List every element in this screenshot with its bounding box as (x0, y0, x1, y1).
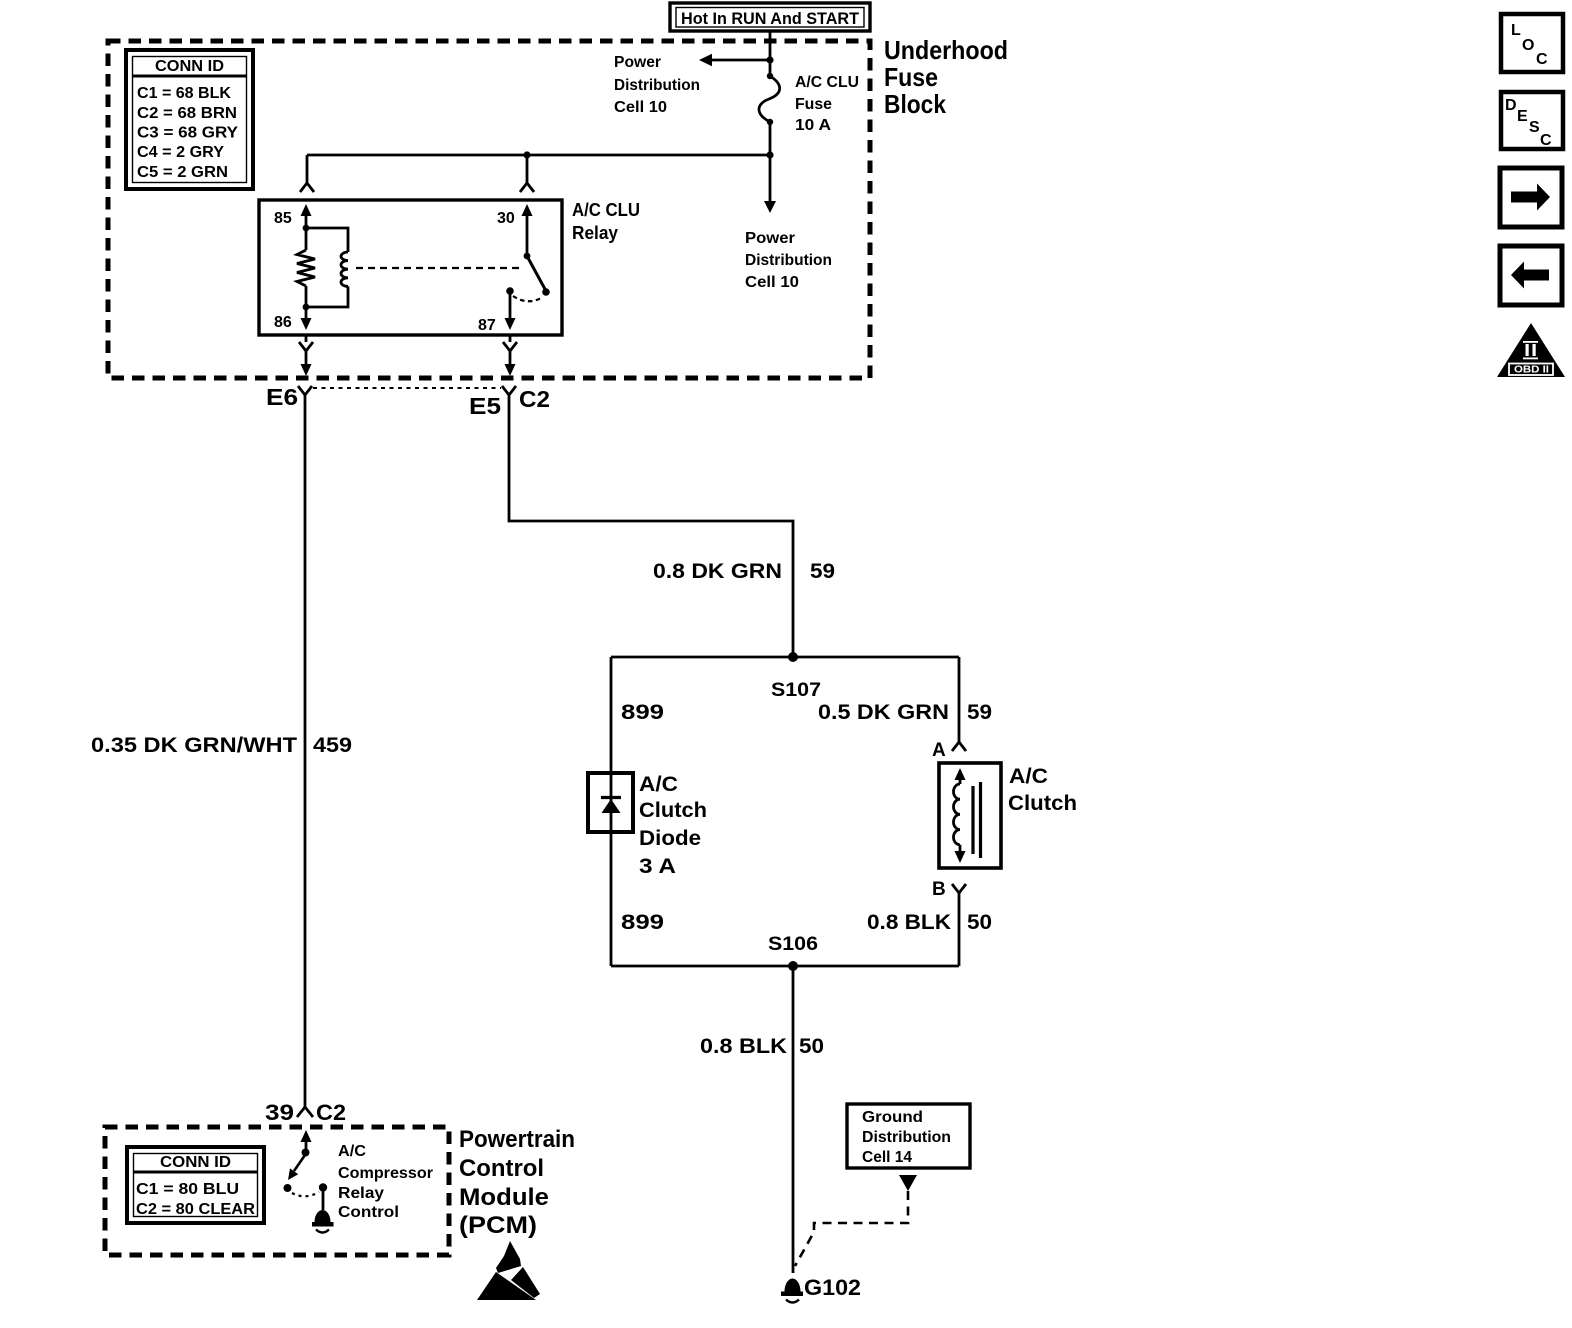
svg-text:C: C (1536, 51, 1548, 68)
svg-text:0.5 DK GRN: 0.5 DK GRN (818, 701, 949, 724)
PCM dashed boundary (105, 1127, 449, 1255)
svg-text:(PCM): (PCM) (459, 1212, 537, 1239)
svg-text:A/C: A/C (639, 773, 678, 796)
label: Powertrain Control Module (PCM) (459, 1126, 575, 1239)
pin 87 arrow (505, 287, 516, 330)
Ground Distribution Cell 14 box (847, 1104, 970, 1168)
relay pin 86 exit terminal and arrow into connector (299, 335, 313, 376)
svg-text:S106: S106 (768, 934, 818, 955)
svg-text:Fuse: Fuse (795, 96, 832, 113)
svg-text:85: 85 (274, 210, 292, 227)
wire from Hot box down through fuse (769, 31, 772, 155)
arrow under Ground Distribution box (899, 1175, 917, 1191)
svg-text:Block: Block (884, 89, 946, 119)
svg-text:E: E (1517, 108, 1528, 125)
dashed wire from Ground Distribution to G102 (795, 1191, 908, 1266)
svg-text:86: 86 (274, 314, 292, 331)
relay pin 87 exit terminal and arrow into connector (503, 335, 517, 376)
node: Hot In RUN And START box (670, 3, 870, 31)
label: 0.8 BLK 50 (clutch to S106) (867, 911, 992, 934)
svg-text:39: 39 (265, 1100, 294, 1125)
label: 0.5 DK GRN 59 (818, 701, 992, 724)
svg-text:C2 = 68 BRN: C2 = 68 BRN (137, 105, 237, 122)
wire: 0.35 DK GRN/WHT 459 from E6 to PCM (304, 395, 307, 1107)
svg-text:E6: E6 (266, 384, 298, 410)
node E6 connector terminal (298, 386, 312, 395)
svg-text:Hot In RUN And START: Hot In RUN And START (681, 10, 859, 28)
connector dotted separation line (313, 387, 501, 389)
svg-text:C4 = 2 GRY: C4 = 2 GRY (137, 144, 224, 161)
wire: 899 branch upper (to diode) (610, 657, 613, 773)
dashed throw arc to pin 87 (513, 296, 543, 301)
junction dot on bus at fuse output (766, 151, 773, 158)
svg-text:Clutch: Clutch (1008, 792, 1077, 815)
svg-text:10 A: 10 A (795, 117, 831, 134)
wire: 0.5 DK GRN 59 to clutch A (958, 657, 961, 742)
svg-text:Power: Power (745, 230, 795, 247)
svg-text:OBD II: OBD II (1514, 365, 1549, 376)
icon: LOC button (1501, 14, 1563, 72)
A/C clutch plates (973, 782, 981, 858)
svg-text:S: S (1529, 119, 1540, 136)
relay coil winding branch (303, 228, 348, 310)
svg-text:Underhood: Underhood (884, 35, 1008, 65)
label: Power Distribution Cell 10 (lower) (745, 230, 832, 291)
A/C compressor relay control driver arrow (301, 1130, 312, 1157)
svg-text:0.8 BLK: 0.8 BLK (700, 1035, 787, 1058)
svg-text:899: 899 (621, 911, 664, 934)
node E5 C2 connector terminal (502, 386, 516, 395)
svg-text:Ground: Ground (862, 1109, 923, 1126)
label: A/C Compressor Relay Control (338, 1143, 433, 1221)
svg-text:C2: C2 (316, 1100, 346, 1125)
svg-text:Control: Control (338, 1204, 399, 1221)
svg-text:Distribution: Distribution (745, 252, 832, 269)
label: Power Distribution Cell 10 (upper) (614, 54, 700, 116)
svg-text:C2: C2 (519, 386, 550, 412)
svg-text:3 A: 3 A (639, 855, 676, 878)
svg-text:30: 30 (497, 210, 515, 227)
svg-text:59: 59 (810, 560, 835, 583)
label: A/C Clutch (1008, 765, 1077, 815)
fuse F: A/C CLU Fuse 10 A (759, 73, 780, 125)
icon: back arrow button (1500, 246, 1562, 305)
A/C clutch coil with arrows (953, 768, 965, 863)
wire: 0.8 BLK 50 from S106 to G102 (792, 966, 795, 1273)
svg-text:CONN ID: CONN ID (155, 58, 224, 75)
svg-text:E5: E5 (469, 393, 501, 419)
svg-text:O: O (1522, 37, 1534, 54)
junction dot at arrow branch (766, 56, 773, 63)
wire: horizontal bus to relay (307, 154, 770, 157)
junction dot above pin 30 (523, 151, 530, 158)
A/C Clutch component box (939, 763, 1001, 868)
svg-text:A/C: A/C (1009, 765, 1048, 788)
svg-text:Clutch: Clutch (639, 799, 707, 822)
svg-text:Cell 10: Cell 10 (614, 99, 667, 116)
relay K: A/C CLU Relay box (259, 200, 562, 335)
svg-text:C1 = 80 BLU: C1 = 80 BLU (136, 1181, 239, 1198)
relay switch armature (527, 256, 550, 296)
svg-text:C5 = 2 GRN: C5 = 2 GRN (137, 164, 228, 181)
svg-text:A/C: A/C (338, 1143, 366, 1160)
label: A/C CLU Relay (572, 200, 640, 243)
splice S106 (611, 961, 959, 971)
icon: DESC button (1501, 92, 1563, 149)
relay coil resistor branch (297, 228, 315, 307)
wire: branch to Power Distribution (left arrow) (699, 54, 770, 67)
svg-text:0.35 DK GRN/WHT: 0.35 DK GRN/WHT (91, 734, 297, 757)
driver switch lever with arrowhead (284, 1155, 306, 1192)
dashed actuation line from coil to armature (356, 267, 521, 269)
svg-text:0.8 BLK: 0.8 BLK (867, 911, 951, 934)
wire: 0.8 DK GRN 59 from E5 to S107 (509, 395, 793, 653)
svg-text:S107: S107 (771, 680, 821, 701)
svg-text:C1 = 68 BLK: C1 = 68 BLK (137, 85, 231, 102)
dotted throw arc (292, 1192, 319, 1196)
svg-text:Control: Control (459, 1155, 544, 1182)
svg-text:Power: Power (614, 54, 661, 71)
wire: 899 branch lower (diode to S106) (610, 832, 613, 966)
svg-text:G102: G102 (804, 1275, 861, 1300)
diode CR: A/C Clutch Diode 3 A (588, 773, 633, 832)
svg-text:459: 459 (313, 734, 352, 757)
svg-text:59: 59 (967, 701, 992, 724)
svg-text:Powertrain: Powertrain (459, 1126, 575, 1153)
CONN ID table (fuse block) (126, 50, 253, 189)
label: A/C Clutch Diode 3 A (639, 773, 707, 878)
svg-text:Module: Module (459, 1184, 549, 1211)
svg-text:Fuse: Fuse (884, 62, 938, 92)
wire: down arrow to Power Distribution Cell 10 (764, 155, 776, 213)
splice S107 (611, 652, 959, 662)
terminal A of A/C Clutch (952, 742, 966, 751)
label: 0.35 DK GRN/WHT 459 (91, 734, 352, 757)
ground G102 symbol (781, 1279, 803, 1303)
pin 86 arrow (301, 307, 312, 330)
svg-text:Compressor: Compressor (338, 1165, 433, 1182)
svg-text:A/C CLU: A/C CLU (572, 200, 640, 220)
svg-text:Cell 10: Cell 10 (745, 274, 799, 291)
terminal 39 C2 into PCM (297, 1107, 313, 1117)
svg-text:C3 = 68 GRY: C3 = 68 GRY (137, 125, 238, 142)
svg-text:A/C CLU: A/C CLU (795, 74, 859, 91)
svg-text:D: D (1505, 97, 1517, 114)
svg-text:L: L (1511, 22, 1521, 39)
svg-text:0.8 DK GRN: 0.8 DK GRN (653, 560, 782, 583)
svg-text:B: B (932, 879, 946, 900)
label: 0.8 DK GRN 59 (653, 560, 835, 583)
switch contact to internal ground (319, 1183, 327, 1210)
label: Underhood Fuse Block (884, 35, 1008, 119)
terminal B of A/C Clutch (952, 884, 966, 966)
internal ground symbol (PCM) (312, 1210, 334, 1233)
icon: forward arrow button (1500, 168, 1562, 227)
svg-text:Distribution: Distribution (614, 77, 700, 94)
svg-text:A: A (932, 740, 946, 761)
icon: OBD II triangle (1497, 323, 1565, 377)
underhood fuse block dashed boundary (108, 41, 870, 378)
svg-text:50: 50 (967, 911, 992, 934)
ESD sensitive symbol (477, 1241, 540, 1300)
svg-text:899: 899 (621, 701, 664, 724)
pin 30 switch common (522, 204, 533, 259)
svg-text:Cell 14: Cell 14 (862, 1149, 912, 1166)
wire drop to relay pin 30 terminal (520, 155, 534, 192)
svg-text:C: C (1540, 132, 1552, 149)
svg-text:CONN ID: CONN ID (160, 1154, 231, 1171)
svg-text:Relay: Relay (572, 223, 618, 243)
pin 85 arrow (301, 204, 312, 231)
svg-text:50: 50 (799, 1035, 824, 1058)
label: A/C CLU Fuse 10 A (795, 74, 859, 134)
svg-text:Relay: Relay (338, 1185, 384, 1202)
svg-text:C2 = 80 CLEAR: C2 = 80 CLEAR (136, 1201, 255, 1218)
CONN ID table (PCM) (127, 1147, 264, 1223)
svg-text:Diode: Diode (639, 827, 701, 850)
label: 0.8 BLK 50 (to ground) (700, 1035, 824, 1058)
svg-text:Distribution: Distribution (862, 1129, 951, 1146)
svg-text:87: 87 (478, 317, 496, 334)
wire drop to relay pin 85 terminal (300, 155, 314, 192)
